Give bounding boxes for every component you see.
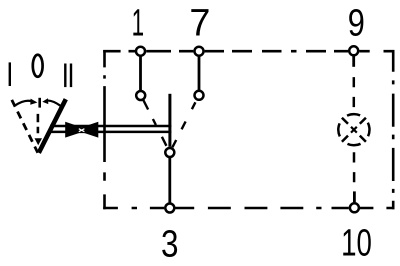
svg-text:9: 9 (348, 2, 365, 44)
svg-text:10: 10 (341, 222, 372, 264)
svg-text:7: 7 (189, 2, 210, 44)
svg-text:1: 1 (132, 1, 144, 44)
svg-text:3: 3 (161, 223, 179, 266)
